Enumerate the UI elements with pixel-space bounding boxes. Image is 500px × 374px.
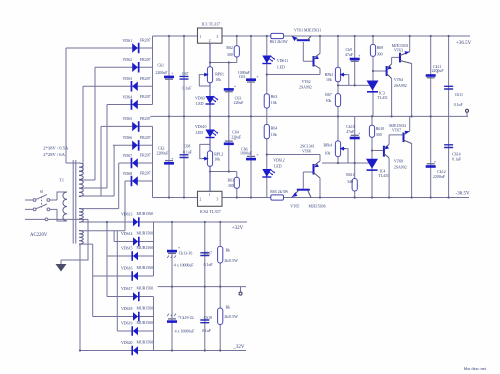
LED VD69 [206,96,215,104]
wire adj network horizontal IC1 [210,62,237,64]
capacitor Ck12 2200uF [427,163,435,165]
capacitor C67 0.1uF [180,76,189,79]
wire C611 C614 vertical [448,36,450,198]
wire primary bottom lead [57,209,67,221]
svg-text:2200uF: 2200uF [433,175,446,179]
wire VT61 base drop [303,42,313,61]
wire RP61 wiper loop [199,75,210,86]
wire Ck9 vertical [354,36,356,85]
svg-text:FR207: FR207 [140,154,151,158]
svg-text:LED: LED [274,164,282,168]
svg-text:10k: 10k [271,133,277,137]
wire diode bus lower positive [153,222,155,276]
wire Ck2 filter cap vertical [168,116,170,197]
capacitor C65 1000uF [246,78,256,81]
resistor R611 340 [352,179,357,192]
capacitor Ck9 47uF [350,58,360,61]
wire lower long vertical to -32V [79,244,81,350]
wire VT68 base horizontal [372,150,383,152]
transformer secondary winding 1 [79,163,83,179]
wire diode bus lower negative [153,297,155,351]
svg-text:R63: R63 [228,179,235,183]
wire lower diode row 4 [93,275,154,277]
svg-text:RPL2: RPL2 [214,152,223,156]
svg-text:R67: R67 [325,93,332,97]
capacitor C614 0.1uF [444,145,453,148]
svg-text:+: + [256,152,259,157]
transistor VT61 MJE15031 [297,39,310,41]
resistor R65 2k/3W in rail neg [271,195,284,200]
regulator IC62 TL337 box [198,191,223,206]
svg-text:VD65: VD65 [123,117,133,121]
wire diode bus top positive [152,36,154,105]
switch gang dashed link [41,197,43,208]
rectifier diode VD64 FR207 [131,99,138,110]
resistor R67 10k [335,94,340,107]
wire primary top lead [57,192,67,200]
wire RPk1 wiper loop [341,75,349,86]
svg-text:2SA992: 2SA992 [394,166,407,170]
transistor VT64 2SA992 [386,66,388,76]
svg-text:VD611: VD611 [277,59,288,63]
wire secondary tap vertical row2 [79,67,95,180]
wire VT62 collector to rail [319,36,321,54]
svg-text:VD615: VD615 [121,246,133,250]
wire VT64 emitter link [392,57,399,64]
svg-text:IC4: IC4 [380,169,386,173]
wire secondary tap vertical row8 [79,181,125,231]
svg-text:10k: 10k [326,78,332,82]
wire R63 300 adj resistor vertical bottom [236,172,238,198]
svg-text:+: + [358,131,361,136]
wire terminal 0 lower stub [240,287,242,292]
svg-text:IC1 TL317: IC1 TL317 [202,22,221,27]
svg-text:300: 300 [227,53,233,57]
svg-text:R610: R610 [376,127,384,131]
wire lower bleeder vertical [219,222,221,351]
IC1 pin2 adj blue stub [209,43,211,62]
svg-text:10k: 10k [215,78,221,82]
svg-text:2200uF: 2200uF [157,152,170,156]
resistor R62 300 top adj [234,46,239,57]
svg-text:MUR1560: MUR1560 [137,232,154,236]
transistor VT63 MJE15031 [399,53,401,63]
blue adj chain vertical IC62 [209,116,211,171]
svg-text:1: 1 [200,35,202,39]
svg-text:RPk4: RPk4 [324,144,333,148]
transistor VT65 MJE15036 [297,189,310,191]
wire VT62 emitter drop [319,69,321,75]
rectifier diode VD616 MUR1560 [131,271,138,281]
wire lower diode row 2 [114,231,153,242]
wire Ck10 vertical [354,116,356,163]
svg-text:0.1uF: 0.1uF [454,103,464,107]
svg-text:S1: S1 [40,190,44,194]
LED VD610 [206,130,215,138]
wire R62 300 adj resistor vertical top [236,36,238,63]
svg-text:MUR1560: MUR1560 [137,307,154,311]
svg-text:C68: C68 [184,145,191,149]
svg-text:3: 3 [217,35,219,39]
svg-text:VD616: VD616 [121,266,133,270]
svg-text:300: 300 [228,184,234,188]
shunt reference IC3 TL431 [367,81,379,91]
svg-text:RP61: RP61 [215,73,224,77]
rectifier diode VD63 FR207 [131,81,138,92]
svg-text:2: 2 [209,39,211,43]
wire lower big caps vertical 1 [171,222,173,351]
wire VT66 emitter junction horizontal [267,154,320,156]
wire C64 cap vertical [228,116,230,171]
op-amp regulator IC1 TL317 box [198,28,223,43]
wire VT64 collector drop [391,79,393,117]
capacitor Ck1 2200uF [164,76,174,79]
wire rail -32V [80,350,246,352]
svg-text:MUR1560: MUR1560 [137,246,154,250]
svg-text:bbs dzsc net: bbs dzsc net [464,366,487,371]
transistor VT67 MJE15032 [403,133,405,143]
svg-text:AC220V: AC220V [30,233,48,238]
svg-text:LED: LED [196,102,204,106]
svg-text:47uF: 47uF [345,53,354,57]
svg-text:1000uF: 1000uF [240,152,253,156]
svg-text:+: + [234,83,237,88]
wire diode row 5 [101,125,153,127]
svg-text:VD64: VD64 [123,95,133,99]
resistor R610 300 [369,125,374,137]
svg-text:4 x 10000uF: 4 x 10000uF [174,263,195,267]
wire diode row 2 [95,66,153,68]
svg-text:TL431: TL431 [378,174,389,178]
capacitor Ck10 47uF [351,134,359,136]
svg-text:T1: T1 [59,178,64,183]
wire C63 cap vertical [228,63,230,117]
wire VT66 emitter rise [319,155,321,162]
svg-text:R62: R62 [226,46,233,50]
wire diode row 1 [66,47,153,49]
wire secondary tap vertical row1 [66,48,79,163]
svg-text:Ck13-16: Ck13-16 [179,252,193,256]
potentiometer RP62 10k [207,151,212,166]
svg-text:R611: R611 [346,173,354,177]
wire VT67 emitter to rail B [409,116,411,131]
rectifier diode VD613 MUR1560 [133,217,140,227]
svg-text:VD620: VD620 [121,341,133,345]
RP61 wiper arrow [204,74,208,76]
wire rail +32V [79,221,247,223]
rectifier diode VD62 FR207 [132,62,139,73]
rectifier diode VD618 MUR1560 [133,312,140,322]
wire lower diode row 7 [117,231,153,331]
wire RPk2 wiper loop [341,149,348,163]
svg-text:1: 1 [209,193,211,197]
svg-text:Ck1: Ck1 [158,64,165,68]
transistor VT68 2SA992 [383,146,385,157]
svg-text:VT66: VT66 [302,149,311,153]
svg-text:FR207: FR207 [140,58,151,62]
wire RPk2 divider vertical lower [337,116,339,163]
svg-text:300: 300 [376,133,382,137]
capacitor C63 220uF [224,88,234,91]
svg-text:+36.5V: +36.5V [456,41,472,46]
svg-text:VD67: VD67 [123,154,133,158]
wire VT63 collector drop [411,64,413,117]
svg-text:R65 2k/3W: R65 2k/3W [270,190,288,194]
svg-text:TL431: TL431 [377,96,388,100]
wire pot bottom horizontal lower [322,162,369,164]
svg-text:Rk: Rk [226,248,231,252]
svg-text:VD62: VD62 [123,58,133,62]
wire secondary tap vertical row7 [79,163,119,209]
switch S1 pole 2 [33,197,50,221]
ground symbol arrowhead [56,264,67,272]
capacitor C64 220uF [225,140,233,142]
wire diode row 4 [107,104,153,106]
rectifier diode VD617 MUR1560 [133,292,140,302]
wire VT68 collector drop [388,158,390,198]
wire secondary tap vertical row4 [79,105,107,189]
capacitor bank Ck17-20 [168,318,176,320]
rectifier diode VD65 FR207 [132,121,139,132]
wire rail negative -36.5 [153,197,470,199]
potentiometer RP61 10k [207,67,212,83]
wire R610 TL431 vertical bottom [371,116,373,197]
svg-text:2*38V / 0.5A: 2*38V / 0.5A [43,146,69,151]
transistor VT62 2SA992 [313,56,315,67]
svg-text:3: 3 [217,198,219,202]
svg-text:FR207: FR207 [140,136,151,140]
wire secondary tap vertical row5 [100,126,102,196]
svg-text:VD619: VD619 [121,321,133,325]
transformer secondary winding 2 [79,180,83,196]
resistor R64 10k [264,124,269,138]
earth terminal circle [45,218,48,221]
rectifier diode VD61 FR207 [132,43,139,54]
svg-text:Rk: Rk [226,306,231,310]
svg-text:VT67: VT67 [392,128,401,132]
svg-text:R61 2k/3W: R61 2k/3W [270,40,288,44]
rectifier diode VD615 MUR1560 [131,251,138,261]
svg-text:VD610: VD610 [195,125,207,129]
wire RPk1 R67 divider vertical [337,36,339,116]
LED VD612 [262,169,271,177]
svg-text:IC3: IC3 [379,92,385,96]
resistor R63 10k [264,94,269,108]
svg-text:VD66: VD66 [123,136,133,140]
resistor R61 2k/3W in rail A [271,33,284,38]
IC62 pin1 adj blue stub [209,172,211,192]
svg-text:Ck12: Ck12 [437,170,445,174]
svg-text:VD612: VD612 [273,159,285,163]
capacitor Ck11 2200uF [426,74,436,77]
svg-text:340: 340 [347,180,353,184]
wire lower 0.1uF vertical [204,222,206,351]
wire lower diode row 5 [79,222,154,297]
potentiometer RPk4 10k [335,141,340,157]
RPk1 wiper arrow [341,74,345,76]
wire R611 vertical to rail neg [354,163,356,198]
svg-text:C614: C614 [452,152,460,156]
wire VD611 R63 R64 divider vertical [266,36,268,198]
svg-text:VT61 MJE15031: VT61 MJE15031 [294,29,321,33]
svg-text:VT68: VT68 [394,160,403,164]
svg-text:2SA992: 2SA992 [394,84,407,88]
svg-text:LED: LED [196,131,204,135]
transformer core [73,160,76,244]
svg-text:R63: R63 [271,95,278,99]
svg-text:VD69: VD69 [195,97,205,101]
wire VT66 collector drop [319,178,321,198]
svg-text:0.1uF: 0.1uF [183,87,193,91]
wire C68 cap vertical [183,116,185,197]
svg-text:C617: C617 [204,252,212,256]
svg-text:+: + [434,159,437,164]
wire diode row 3 [83,85,153,87]
svg-text:10k: 10k [214,157,220,161]
svg-text:2SC1341: 2SC1341 [300,144,315,148]
blue adj chain vertical IC1 [209,63,211,117]
capacitor bank Ck13-16 [167,250,177,253]
svg-text:VD614: VD614 [121,232,133,236]
svg-text:0.1uF: 0.1uF [202,329,212,333]
svg-text:MJE15031: MJE15031 [392,44,409,48]
svg-text:C63: C63 [235,96,242,100]
svg-text:2: 2 [200,198,202,202]
svg-text:_32V: _32V [232,345,245,350]
wire C67 cap vertical [183,36,185,116]
svg-text:R64: R64 [271,127,278,131]
switch S1 pole 1 [33,195,50,202]
svg-text:MUR1560: MUR1560 [137,321,154,325]
svg-text:Ck9: Ck9 [346,48,353,52]
svg-text:MJE15036: MJE15036 [309,204,326,208]
wire lower diode row 3 [107,255,154,257]
svg-text:VD68: VD68 [123,172,133,176]
wire rail 0 lower [158,286,246,288]
resistor R63 300 bottom adj [234,177,239,188]
svg-text:MUR1560: MUR1560 [137,266,154,270]
wire TL431 ref horizontal top [338,84,370,86]
svg-text:C64: C64 [232,130,239,134]
rectifier diode VD67 FR207 [131,158,138,169]
svg-text:C618: C618 [204,316,212,320]
resistor Rk bleeder lower [218,308,223,325]
svg-text:VD61: VD61 [123,39,133,43]
svg-text:2200uF: 2200uF [156,71,169,75]
svg-text:FR207: FR207 [140,117,151,121]
output terminal 0V top [466,109,469,112]
wire Ck1 filter cap vertical [168,36,170,116]
wire adj network horizontal IC62 [210,171,237,173]
svg-text:+: + [171,156,174,161]
wire VT63 emitter to rail [409,36,411,52]
capacitor C618 0.1uF [200,320,209,323]
svg-text:RPk1: RPk1 [325,73,334,77]
wire VT62 emitter junction horizontal [267,74,320,76]
svg-text:4 x 10000uF: 4 x 10000uF [175,330,196,334]
svg-text:VT64: VT64 [394,78,403,82]
svg-text:R69: R69 [377,46,384,50]
svg-text:IC62 TL337: IC62 TL337 [200,209,221,214]
resistor R69 300 [370,44,375,56]
ground [60,260,62,264]
svg-text:FR207: FR207 [140,95,151,99]
wire diode bus top negative [152,126,154,197]
svg-text:10k: 10k [325,151,331,155]
wire rail B 0V mid [151,115,469,117]
rectifier diode VD620 MUR1560 [131,346,138,356]
svg-text:2k/0.5W: 2k/0.5W [224,259,238,263]
LED VD611 [262,56,271,64]
svg-text:VD617: VD617 [121,287,133,291]
wire earth drop [61,219,88,260]
svg-text:0.1uF: 0.1uF [452,157,462,161]
svg-text:MJE15032: MJE15032 [389,124,406,128]
svg-text:LED: LED [277,66,285,70]
svg-text:MUR1560: MUR1560 [137,212,154,216]
svg-text:0.1uF: 0.1uF [204,263,214,267]
svg-text:FR207: FR207 [140,172,151,176]
svg-text:FR207: FR207 [140,77,151,81]
capacitor C617 0.1uF [200,253,209,256]
svg-text:47uF: 47uF [346,130,355,134]
capacitor C66 1000uF [247,155,255,157]
svg-text:VT62: VT62 [302,80,311,84]
svg-text:2SA992: 2SA992 [299,86,312,90]
RP62 wiper arrow [203,158,207,160]
wire lower diode row 6 [93,244,154,316]
svg-text:VD618: VD618 [121,307,133,311]
rectifier diode VD619 MUR1560 [131,326,138,336]
wire C65 1000uF vertical [250,36,252,116]
wire R69 TL431 vertical top [372,36,374,116]
wire VT67 collector drop [411,144,413,198]
wire C66 1000uF vertical [250,116,252,197]
svg-text:FR207: FR207 [140,39,151,43]
wire AC earth line [25,218,88,220]
transformer T1 primary winding [63,192,67,221]
svg-text:0.1uF: 0.1uF [183,150,193,154]
svg-text:C67: C67 [182,72,189,76]
capacitor C611 0.1uF [444,86,453,89]
svg-text:2*28V / 6A: 2*28V / 6A [43,152,65,157]
transformer secondary winding 3 [79,208,83,222]
wire secondary tap vertical row6 [79,145,114,196]
wire VT64 base horizontal [373,70,386,72]
svg-text:10k: 10k [271,101,277,105]
svg-text:+: + [256,74,259,79]
transformer secondary winding 4 [79,231,83,245]
svg-text:+: + [171,71,174,76]
transistor VT66 2SC1341 [313,164,315,175]
potentiometer RPk1 10k [335,67,340,82]
svg-text:VD63: VD63 [123,77,133,81]
svg-text:MUR1560: MUR1560 [137,287,154,291]
resistor Rk bleeder upper [218,246,223,263]
svg-text:+32V: +32V [232,226,244,231]
svg-text:+: + [178,245,181,250]
svg-text:+: + [358,53,361,58]
capacitor Ck2 2200uF [165,160,173,162]
svg-text:220uF: 220uF [234,101,245,105]
svg-text:300: 300 [377,52,383,56]
wire terminal 0V stub [466,113,468,117]
svg-text:C611: C611 [455,93,463,97]
wire rail A +raw top [153,35,471,37]
svg-text:Ck10: Ck10 [346,125,354,129]
svg-text:MUR1560: MUR1560 [137,341,154,345]
capacitor C68 0.1uF [180,155,189,158]
